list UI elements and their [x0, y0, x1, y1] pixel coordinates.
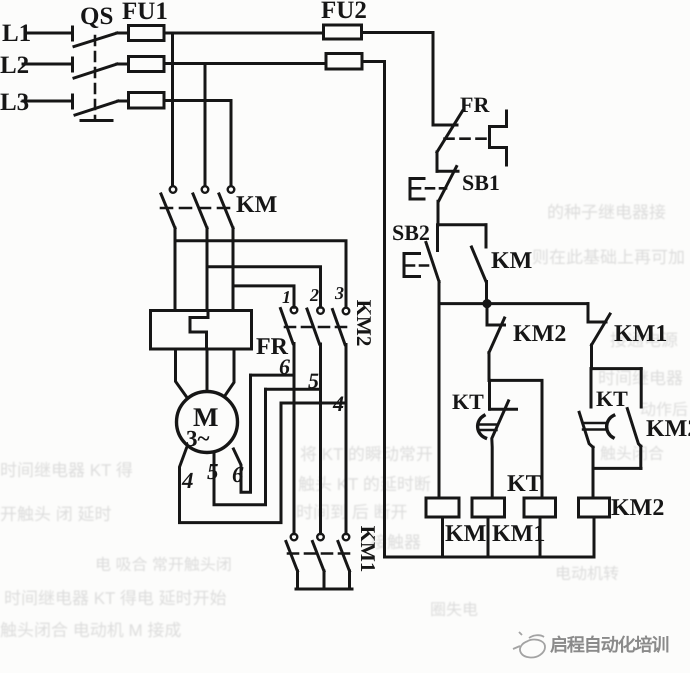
junction number 5	[308, 368, 319, 393]
wire KM1 star bar	[296, 588, 352, 591]
svg-text:FU2: FU2	[321, 0, 367, 24]
coil KM	[426, 498, 459, 557]
wire node row	[439, 302, 588, 305]
junction number 6	[279, 354, 290, 379]
coil KM1	[472, 498, 505, 557]
label KM2 vertical	[352, 300, 376, 347]
node L1	[2, 20, 31, 47]
contactor KM linkage	[161, 207, 237, 210]
wire drop phase2	[204, 64, 207, 186]
wire L1 bus to FU2	[164, 32, 323, 35]
contactor KM2 main pole 2	[307, 307, 324, 534]
wire L2 to QS	[23, 63, 71, 66]
wire motor terminal 6	[234, 375, 251, 492]
label KM1 coil	[492, 521, 545, 547]
wire drop phase1	[171, 33, 174, 186]
label KM2 aux	[646, 416, 690, 442]
svg-text:4: 4	[332, 391, 344, 416]
label FR heater	[256, 334, 289, 360]
relay FR contact	[433, 111, 463, 171]
wire FR to motor V	[206, 349, 209, 392]
contactor KM1 main pole 1	[286, 534, 298, 589]
timer KT delayed contact	[478, 380, 517, 498]
wire pole2 to KM2 pin2	[207, 267, 321, 308]
svg-text:KM: KM	[236, 192, 277, 218]
timer KT delayed close contact	[579, 369, 614, 498]
fuse FU1 a	[129, 26, 165, 41]
svg-text:KM2: KM2	[611, 495, 664, 521]
fuse FU2 b	[326, 54, 362, 70]
svg-text:KM1: KM1	[614, 321, 667, 347]
label FU2	[321, 0, 367, 24]
svg-text:FR: FR	[460, 92, 490, 117]
wire parallel bottom	[593, 467, 641, 470]
svg-text:KM1: KM1	[356, 526, 380, 573]
wire bottom rail	[385, 556, 595, 559]
junction number 4	[332, 391, 344, 416]
svg-text:SB1: SB1	[462, 170, 500, 195]
contactor KM1 main pole 2	[313, 534, 325, 589]
wire QS3 to FU1c	[118, 100, 128, 103]
svg-text:KM2: KM2	[646, 416, 690, 442]
label FU1	[122, 0, 168, 25]
svg-text:KT: KT	[596, 386, 628, 411]
svg-text:2: 2	[309, 285, 319, 305]
background bleed-through text (decorative)	[547, 198, 666, 223]
contactor KM2 NC contact	[487, 304, 505, 381]
fuse FU1 b	[129, 57, 165, 72]
node L3	[0, 89, 29, 116]
pin number 1	[282, 287, 291, 307]
wire QS1 to FU1a	[117, 32, 128, 35]
contactor KM aux contact	[472, 225, 487, 304]
svg-text:KM: KM	[445, 521, 486, 547]
terminal number 5	[207, 459, 219, 484]
wire parallel top	[591, 367, 641, 370]
svg-text:KM2: KM2	[513, 321, 566, 347]
switch QS pole 1	[73, 27, 118, 47]
wire motor terminal 4	[180, 403, 282, 523]
svg-text:FU1: FU1	[122, 0, 168, 25]
svg-text:3~: 3~	[186, 426, 210, 451]
wire pole3 to KM2 pin1	[233, 286, 294, 307]
label KM coil	[445, 521, 486, 547]
motor M	[177, 392, 238, 453]
svg-text:KM1: KM1	[492, 521, 545, 547]
label KM2 coil	[611, 495, 664, 521]
svg-text:6: 6	[232, 462, 244, 487]
pushbutton SB1	[410, 167, 458, 225]
switch QS pole 2	[73, 58, 118, 78]
svg-text:QS: QS	[80, 3, 113, 30]
wire FR to motor W	[225, 349, 234, 396]
wire FR to motor U	[176, 349, 188, 398]
contactor KM2 linkage	[285, 326, 347, 329]
wire KM2 pole3 to term4	[281, 402, 346, 405]
label SB2	[392, 220, 430, 245]
svg-text:SB2: SB2	[392, 220, 430, 245]
svg-text:6: 6	[279, 354, 290, 379]
fuse FU2 a	[324, 25, 362, 39]
fuse FU1 c	[129, 93, 165, 109]
svg-text:3: 3	[334, 283, 344, 303]
wire KM coil rail	[438, 282, 441, 499]
wire FU2b to control L2 rail	[362, 62, 385, 558]
wire QS2 to FU1b	[117, 63, 128, 66]
label KM1 vertical	[356, 526, 380, 573]
wire FU2a to control L1	[362, 33, 434, 123]
node L2	[0, 52, 29, 79]
wire drop phase3	[230, 101, 233, 186]
terminal number 6	[232, 462, 244, 487]
contactor KM2 aux contact	[627, 369, 641, 469]
label SB1	[462, 170, 500, 195]
contactor KM main pole 2	[193, 186, 208, 310]
label KT contact	[452, 389, 484, 414]
wire L3 to QS	[23, 100, 71, 103]
coil KM2	[579, 498, 610, 557]
contactor KM2 main pole 3	[333, 308, 350, 534]
svg-text:KT: KT	[507, 471, 542, 497]
watermark logo	[513, 632, 545, 657]
label KT coil	[507, 471, 542, 497]
svg-text:KM: KM	[491, 248, 532, 274]
wire L1 to QS	[26, 32, 71, 35]
label KT right	[596, 386, 628, 411]
wire L2 bus to FU2	[164, 62, 326, 65]
label KM	[236, 192, 277, 218]
wire KM2 pole2 to term5	[266, 388, 321, 391]
wire motor terminal 5	[214, 389, 266, 504]
wire L3 bus	[164, 99, 231, 102]
svg-text:4: 4	[181, 468, 194, 493]
contactor KM1 main pole 3	[338, 534, 350, 589]
thermal relay FR heater box	[151, 311, 252, 350]
switch QS linkage	[81, 36, 112, 121]
wire KM2 pole1 to term6	[251, 374, 295, 377]
wire pole1 to KM2 pin3	[175, 241, 346, 308]
svg-text:KM2: KM2	[352, 300, 376, 347]
svg-text:启程自动化培训: 启程自动化培训	[550, 635, 668, 655]
label KM aux	[491, 248, 532, 274]
svg-text:5: 5	[308, 368, 319, 393]
wire SB1 to SB2/KM node	[438, 223, 486, 226]
pin number 2	[309, 285, 319, 305]
contactor KM2 main pole 1	[281, 307, 298, 534]
junction dot	[482, 299, 491, 308]
label FR contact	[460, 92, 490, 117]
terminal number 4	[181, 468, 194, 493]
pushbutton SB2	[404, 225, 439, 282]
svg-text:1: 1	[282, 287, 291, 307]
pin number 3	[334, 283, 344, 303]
label KM2 NC	[513, 321, 566, 347]
contactor KM1 linkage	[288, 552, 352, 555]
label KM1 NC	[614, 321, 667, 347]
svg-text:KT: KT	[452, 389, 484, 414]
coil KT	[524, 498, 556, 557]
contactor KM main pole 1	[161, 186, 176, 310]
switch QS pole 3	[73, 95, 119, 115]
wire to KT coil	[489, 380, 542, 498]
contactor KM main pole 3	[219, 186, 234, 310]
svg-text:5: 5	[207, 459, 219, 484]
label QS	[80, 3, 113, 30]
contactor KM1 NC contact	[588, 304, 610, 369]
FR reset bracket	[445, 111, 507, 165]
